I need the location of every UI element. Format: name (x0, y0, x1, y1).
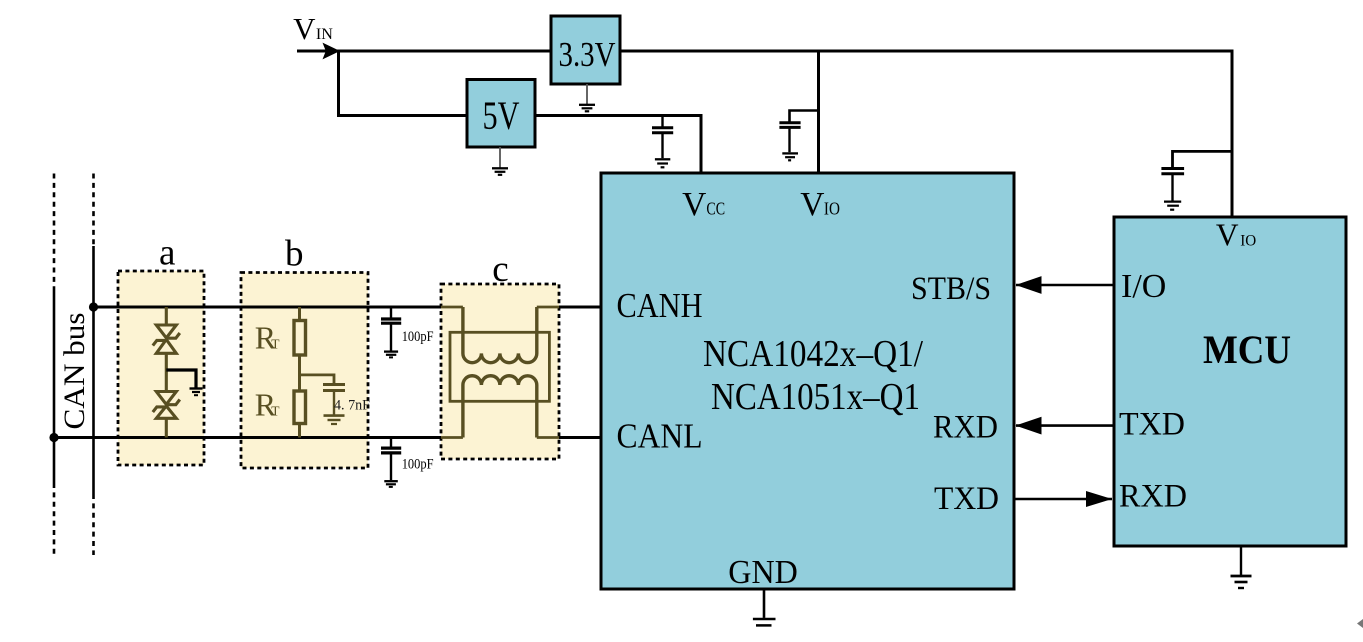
wire RXD to TXD with arrow (1016, 417, 1115, 435)
wire CANH (94, 305, 463, 308)
svg-text:NCA1042x–Q1/: NCA1042x–Q1/ (703, 333, 923, 375)
CAN transceiver U1 NCA1042x-Q1 (601, 173, 1014, 591)
CAN bus line right dashed (92, 174, 95, 556)
wire CANH through box a (redrawn over fill) (118, 305, 204, 308)
svg-text:T: T (271, 404, 280, 419)
svg-text:TXD: TXD (934, 481, 999, 517)
svg-text:MCU: MCU (1203, 327, 1291, 372)
artifact mark bottom right (1357, 619, 1363, 628)
svg-text:CAN bus: CAN bus (58, 313, 91, 430)
wire TXD to RXD with arrow (1014, 491, 1112, 507)
wire CANL into choke (441, 436, 463, 439)
svg-text:b: b (285, 234, 304, 275)
svg-text:CC: CC (706, 199, 725, 219)
choke L1 winding 1 (463, 307, 537, 363)
wire 5V output to VCC pin (535, 116, 701, 174)
wire 3.3V output to MCU supply (620, 51, 1232, 217)
node VIN label (293, 11, 333, 46)
svg-text:3.3V: 3.3V (559, 35, 616, 74)
wire CANH into choke (441, 306, 463, 309)
capacitor C6 100pF on CANL (381, 438, 434, 487)
svg-text:a: a (159, 232, 175, 273)
svg-text:CANL: CANL (617, 417, 703, 456)
node CANL junction (49, 433, 58, 442)
svg-text:IO: IO (824, 199, 840, 219)
MCU U2 (1114, 217, 1346, 546)
TVS diode D1 (153, 307, 180, 392)
resistor RT2 (255, 387, 306, 438)
termination box b (241, 234, 368, 468)
svg-text:CANH: CANH (617, 286, 703, 325)
svg-text:T: T (271, 337, 280, 352)
choke L1 winding 2 (463, 376, 537, 438)
protection box a (118, 232, 204, 465)
TVS diode D2 (153, 392, 180, 438)
svg-text:100pF: 100pF (402, 456, 434, 472)
svg-text:V: V (1216, 218, 1239, 253)
svg-text:RXD: RXD (933, 410, 998, 446)
wire CANH through box b (241, 305, 368, 308)
wire VIN horizontal to 3.3V regulator (297, 50, 551, 53)
svg-text:100pF: 100pF (402, 329, 434, 345)
svg-text:V: V (800, 186, 824, 223)
arrowhead VIN input (323, 43, 341, 60)
wire between RT1 and RT2 (298, 355, 301, 391)
wire CANL through box a (118, 436, 204, 439)
ground under C3 (1164, 202, 1181, 210)
svg-text:4. 7nF: 4. 7nF (334, 398, 370, 414)
svg-text:IO: IO (1240, 233, 1256, 250)
svg-text:STB/S: STB/S (911, 271, 991, 307)
wire CANL (54, 436, 463, 439)
svg-text:RXD: RXD (1119, 479, 1187, 515)
svg-text:c: c (492, 249, 508, 290)
svg-text:5V: 5V (483, 93, 520, 138)
wire STB/S to I/O with arrow (1016, 276, 1115, 294)
capacitor C3 on MCU supply (1161, 151, 1232, 200)
ground under C1 (655, 159, 670, 167)
wire CANL through box b (241, 436, 368, 439)
svg-text:NCA1051x–Q1: NCA1051x–Q1 (711, 376, 920, 418)
wire CANL from choke to U1 (537, 436, 601, 439)
regulator 5V (467, 80, 535, 148)
capacitor C5 100pF on CANH (381, 307, 434, 357)
wire VIO pin to 3.3V rail (817, 51, 820, 173)
capacitor C4 4.7nF (300, 375, 371, 424)
svg-text:IN: IN (316, 26, 333, 43)
svg-text:V: V (293, 11, 316, 46)
common-mode choke box c (441, 249, 559, 459)
svg-text:I/O: I/O (1121, 268, 1166, 305)
CAN bus line left dashed (53, 174, 56, 556)
wire TVS midpoint to ground (166, 370, 202, 395)
ground under 5V regulator (492, 147, 508, 175)
wire branch down to 5V regulator (339, 51, 468, 116)
svg-text:TXD: TXD (1119, 407, 1185, 443)
node CANH junction (89, 302, 98, 311)
ground at MCU (1231, 546, 1252, 588)
ground at U1 GND pin (753, 589, 776, 625)
capacitor C1 on VCC rail (652, 116, 673, 159)
svg-text:V: V (682, 186, 706, 223)
svg-text:GND: GND (728, 554, 798, 591)
capacitor C2 on VIO rail (779, 111, 818, 153)
wire CANH out of choke (537, 306, 559, 309)
wire CANL out of choke (537, 436, 559, 439)
choke L1 body (450, 332, 549, 401)
ground under C2 (782, 153, 798, 160)
wire CANH from choke to U1 (537, 305, 601, 308)
resistor RT1 (255, 307, 306, 356)
regulator 3.3V (551, 16, 620, 84)
ground under 3.3V regulator (579, 84, 595, 111)
